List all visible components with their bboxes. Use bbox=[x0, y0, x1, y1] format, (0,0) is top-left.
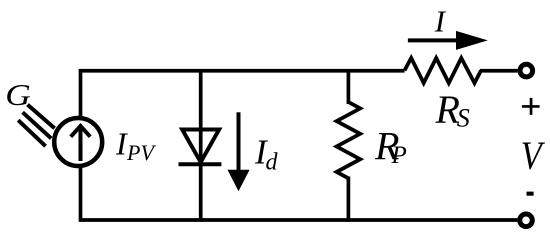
svg-text:I: I bbox=[434, 3, 447, 38]
wire top (node A rail) bbox=[81, 71, 405, 118]
irradiance ray 1 bbox=[28, 105, 55, 129]
svg-text:P: P bbox=[391, 142, 407, 169]
label + bbox=[522, 98, 540, 115]
svg-text:d: d bbox=[266, 149, 279, 175]
current arrow Id head bbox=[228, 170, 250, 192]
current arrow Id shaft bbox=[237, 112, 241, 172]
current source U1 circle bbox=[54, 118, 102, 166]
resistor RP zigzag bbox=[337, 102, 361, 178]
resistor RS zigzag bbox=[405, 58, 482, 83]
terminal - (bottom output) bbox=[520, 214, 533, 227]
wire diode branch bbox=[199, 69, 203, 222]
diode D1 cathode bar bbox=[179, 162, 222, 166]
wire bottom (node B rail) bbox=[81, 166, 518, 220]
wire RS to + terminal bbox=[480, 69, 518, 73]
terminal + (top output) bbox=[520, 64, 533, 77]
irradiance ray 2 bbox=[23, 112, 52, 138]
current arrow I shaft bbox=[408, 38, 458, 42]
svg-text:PV: PV bbox=[126, 140, 156, 165]
wire RP branch top bbox=[347, 69, 351, 104]
svg-text:V: V bbox=[521, 135, 546, 179]
svg-text:G: G bbox=[5, 78, 31, 113]
irradiance ray 3 bbox=[18, 120, 45, 146]
wire RP branch bottom bbox=[347, 177, 351, 222]
label - bbox=[527, 192, 534, 196]
diode D1 triangle bbox=[182, 130, 219, 163]
svg-text:S: S bbox=[457, 103, 470, 132]
current source U1 arrow bbox=[71, 126, 91, 161]
current arrow I head bbox=[456, 31, 488, 50]
